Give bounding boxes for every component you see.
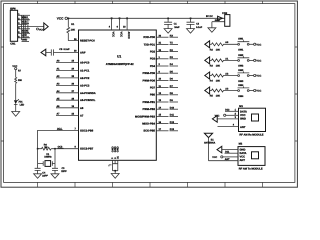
CN1 pin 3 (18, 22, 27, 25)
svg-text:10K: 10K (216, 49, 221, 52)
svg-text:VCC: VCC (111, 32, 114, 38)
U1 left pin A6 (56, 105, 84, 110)
U1 left pin A5-PC5/SCL (56, 97, 96, 102)
svg-text:ARF: ARF (80, 52, 86, 55)
svg-text:A5-PC5/SCL: A5-PC5/SCL (80, 99, 96, 102)
svg-text:0.1uF: 0.1uF (196, 26, 203, 29)
U1 right pin PWM-PD5 / net D5 (143, 70, 178, 75)
U1 left pin A1-PC1 (56, 68, 90, 73)
CN1 routing wires (22, 15, 28, 40)
connector CN1 ISP6 (10, 7, 18, 45)
svg-text:OSC1-PB6: OSC1-PB6 (80, 129, 94, 132)
svg-text:SW2: SW2 (238, 65, 244, 68)
M1 pin 1 DATA wire / net D12 (225, 109, 239, 112)
U1 right pin SCK-PB5 / net D13 (143, 128, 178, 133)
U1 right pin MOSI/PWM-PB3 / net D11 (135, 114, 178, 119)
U1 bottom pins GND GND GND (111, 146, 119, 159)
svg-text:PWM-PD6: PWM-PD6 (143, 79, 156, 82)
capacitor C2 0.1uF (187, 18, 203, 30)
net flag A3 (button row) (205, 87, 212, 94)
svg-text:A7: A7 (80, 114, 84, 117)
U1 left pin OSC1-PB6 (75, 128, 94, 133)
svg-text:SW3: SW3 (238, 80, 244, 83)
svg-text:PD2: PD2 (150, 51, 156, 54)
svg-text:VCC: VCC (57, 17, 64, 21)
svg-text:TXD-PD1: TXD-PD1 (144, 43, 156, 46)
svg-text:5V DC: 5V DC (206, 15, 213, 18)
svg-text:22PF: 22PF (61, 170, 67, 173)
svg-text:PWM-PB2: PWM-PB2 (143, 108, 156, 111)
svg-text:SW1: SW1 (238, 49, 244, 52)
svg-text:10K: 10K (216, 80, 221, 83)
U1 right pin RXD-PD0 / net RX (143, 34, 178, 39)
svg-text:A6: A6 (80, 107, 84, 110)
svg-text:RF AM Tx MODULE: RF AM Tx MODULE (239, 167, 263, 170)
resistor R7 330 (15, 69, 23, 100)
switch SW3 (238, 69, 254, 83)
svg-text:PWM-PB1: PWM-PB1 (143, 101, 156, 104)
svg-text:M1: M1 (239, 105, 243, 108)
svg-text:PD3: PD3 (150, 58, 156, 61)
svg-text:GND: GND (240, 118, 246, 121)
svg-text:ANT: ANT (240, 126, 246, 129)
ground for C1 (164, 29, 172, 33)
resistor R3 10K (210, 57, 238, 67)
svg-text:GND: GND (117, 146, 120, 152)
net flag 5VDC (206, 15, 222, 22)
U1 top pins VCC VCC AVCC (109, 17, 130, 38)
svg-text:A4-PC4/SDA: A4-PC4/SDA (80, 92, 96, 95)
LED D1 (14, 99, 25, 111)
svg-text:ANTENNA: ANTENNA (204, 141, 216, 144)
crystal X1 16MHz (38, 149, 55, 167)
svg-text:A2-PC2: A2-PC2 (80, 77, 90, 80)
svg-text:D11: D11 (225, 151, 230, 154)
VCC flag at SW1 (254, 43, 262, 46)
capacitor C1 10uF (164, 18, 180, 30)
AREF net flag + capacitor C5 (41, 48, 79, 56)
CN1 net label GND (22, 39, 30, 42)
CN1 pin 4 (18, 26, 30, 29)
resistor R1 10K (reset pullup) (67, 18, 79, 40)
VCC flag at SW3 (254, 74, 262, 77)
CN1 pin 6 (18, 35, 30, 38)
svg-text:ANT: ANT (225, 158, 230, 161)
connector CN2 (212, 12, 230, 28)
node R1/rail junction (68, 18, 70, 20)
svg-text:PB0: PB0 (150, 94, 156, 97)
U1 left pin OSC2-PB7 (75, 146, 94, 151)
svg-text:MOSI/PWM-PB3: MOSI/PWM-PB3 (135, 115, 155, 118)
CN1 pin 1 (18, 13, 30, 16)
svg-text:U1: U1 (117, 55, 121, 59)
svg-text:D12: D12 (225, 109, 230, 112)
U1 right pin PD4 / net D4 (150, 63, 178, 68)
svg-text:RESET-PC6: RESET-PC6 (80, 40, 95, 43)
U1 right pin MISO-PB4 / net D12 (142, 121, 178, 126)
U1 right pin PWM-PB2 / net D10 (143, 106, 178, 111)
M1 pin 2 VCC flag (215, 113, 239, 118)
VCC flag at SW2 (254, 59, 262, 62)
U1 left pin A4-PC4/SDA (56, 90, 96, 95)
CN1 net label SCK (22, 21, 30, 24)
U1 left pin AREF pin 20 (74, 50, 86, 55)
svg-text:0.1uF: 0.1uF (64, 48, 71, 51)
switch SW4 (238, 84, 254, 98)
ground for C4 (34, 174, 42, 179)
U1 left pin A7 (56, 113, 84, 118)
wire CN1 to VCC flag (18, 26, 44, 28)
ground for LED (12, 112, 20, 117)
svg-text:M2: M2 (239, 142, 243, 145)
ground for C3 (51, 174, 59, 179)
svg-text:A1-PC1: A1-PC1 (80, 69, 90, 72)
svg-text:10K: 10K (71, 29, 76, 32)
ground for C2 (187, 29, 195, 33)
CN1 pin 2 (18, 17, 30, 20)
VCC net flag (ISP) (37, 23, 49, 31)
svg-text:SW2: SW2 (238, 54, 244, 57)
U1 right pin PWM-PD6 / net D6 (143, 78, 178, 83)
svg-text:PD4: PD4 (150, 65, 156, 68)
antenna E1 (204, 133, 216, 161)
svg-text:VCC: VCC (212, 156, 217, 159)
resistor R2 10K (210, 41, 238, 51)
U1 right pin TXD-PD1 / net TX (144, 42, 178, 47)
resistor R5 10K (210, 87, 238, 97)
U1 right pin PD2 / net D2 (150, 49, 178, 54)
VCC flag at SW4 (254, 89, 262, 92)
VCC flag (LED branch) (12, 65, 17, 70)
svg-text:MISO-PB4: MISO-PB4 (142, 123, 155, 126)
U1 left pin A3-PC3 (56, 83, 90, 88)
svg-text:VCC: VCC (39, 28, 44, 31)
svg-text:SW3: SW3 (238, 69, 244, 72)
svg-text:10K: 10K (216, 65, 221, 68)
svg-text:VCC: VCC (256, 60, 261, 63)
svg-text:A3-PC3: A3-PC3 (80, 85, 90, 88)
svg-text:SW4: SW4 (238, 84, 244, 87)
svg-text:VCC: VCC (256, 43, 261, 46)
net flag A2 (button row) (205, 72, 212, 79)
U1 left pin RESET-PC6 (74, 38, 95, 43)
VCC power flag (top middle) (57, 17, 68, 21)
M2 pin DATA wire / net D11 (225, 151, 239, 154)
svg-text:10K: 10K (216, 95, 221, 98)
svg-text:10uF: 10uF (174, 26, 180, 29)
wire OSC2 net OC2 (51, 146, 78, 149)
module M1 RF AM Rx (239, 105, 266, 137)
M2 pin VCC flag (212, 156, 238, 159)
IC U1 body (79, 30, 157, 160)
svg-text:RXD-PD0: RXD-PD0 (143, 36, 155, 39)
svg-text:A0-PC0: A0-PC0 (80, 62, 90, 65)
capacitor C3 22PF (52, 164, 67, 174)
U1 ground pins ladder (109, 160, 118, 173)
CN1 net label MISO (22, 16, 30, 19)
U1 left pin A0-PC0 (56, 60, 90, 65)
net flag A0 (button row) (205, 41, 212, 48)
capacitor C4 22PF (35, 164, 49, 178)
switch SW1 (238, 38, 254, 52)
module M2 RF AM Tx (238, 142, 265, 170)
switch SW2 (238, 54, 254, 68)
svg-text:ANT: ANT (240, 159, 246, 162)
ground for U1 (111, 174, 119, 179)
CN1 pin 5 (18, 31, 30, 34)
svg-text:22PF: 22PF (42, 174, 48, 177)
U1 right pin PWM-PB1 / net D9 (143, 99, 178, 104)
svg-text:PD7: PD7 (150, 87, 156, 90)
svg-text:SCK-PB5: SCK-PB5 (143, 130, 155, 133)
svg-text:VCC: VCC (119, 32, 122, 38)
U1 left pin A2-PC2 (56, 75, 90, 80)
M2 pin ANT wire (209, 158, 239, 161)
svg-text:VCC: VCC (256, 90, 261, 93)
U1 right pin PB0 / net D8 (150, 92, 178, 97)
U1 right pin PD7 / net D7 (150, 85, 178, 90)
resistor R6 1M (37, 143, 56, 150)
M1 pin 3 GND flag arrow (212, 116, 238, 123)
U1 right pin PD3 / net D3 (156, 58, 158, 60)
M1 pin 4 ANT wire (218, 124, 239, 127)
wire VCC rail (67, 17, 224, 19)
CN1 net label VCC (22, 34, 30, 37)
resistor R4 10K (210, 72, 238, 82)
svg-text:1M: 1M (44, 146, 47, 149)
svg-text:SW1: SW1 (238, 38, 244, 41)
svg-text:RF AM Rx MODULE: RF AM Rx MODULE (239, 134, 263, 137)
svg-text:DATA: DATA (240, 110, 247, 113)
svg-text:LED: LED (20, 104, 25, 107)
M2 pin GND flag arrow (217, 146, 238, 153)
svg-text:VCC: VCC (256, 75, 261, 78)
net flag A1 (button row) (205, 57, 212, 64)
svg-text:OSC2-PB7: OSC2-PB7 (80, 147, 94, 150)
svg-text:AVCC: AVCC (127, 32, 130, 39)
svg-text:SW4: SW4 (238, 95, 244, 98)
svg-text:ATMEGA328P/QFP-32: ATMEGA328P/QFP-32 (106, 63, 134, 66)
svg-text:CN1: CN1 (10, 42, 16, 45)
svg-text:PWM-PD5: PWM-PD5 (143, 72, 156, 75)
CN1 net label MOSI (22, 30, 30, 33)
ground for CN2 (208, 28, 216, 33)
svg-text:16MHz: 16MHz (44, 156, 52, 159)
wire OSC1 net OC1 (38, 127, 79, 148)
